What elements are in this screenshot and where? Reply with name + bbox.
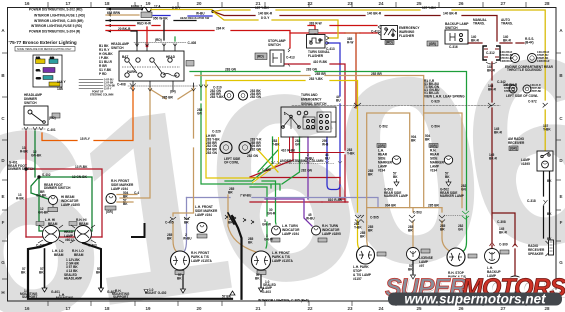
splice S-401 [24, 167, 27, 170]
radio receiver box [509, 146, 553, 171]
fuse F2 [142, 7, 151, 12]
wire tan to RH stop lamp [442, 208, 451, 252]
wire dashed C-920 [292, 105, 500, 107]
svg-text:57 BK: 57 BK [222, 295, 232, 299]
wire 410 R-BK [285, 64, 345, 202]
svg-text:28: 28 [544, 1, 550, 6]
lamp hi beam indicator [48, 196, 58, 212]
svg-text:Y-BK: Y-BK [272, 142, 280, 146]
svg-text:C-408: C-408 [117, 82, 126, 86]
svg-text:17: 17 [65, 1, 71, 6]
headlamp switch U1 [119, 45, 194, 81]
turn signal flasher U2 [307, 30, 326, 49]
svg-text:BK: BK [547, 179, 552, 183]
svg-text:410 R-BK: 410 R-BK [281, 149, 296, 153]
svg-text:410 R-BK: 410 R-BK [313, 60, 328, 64]
svg-text:8 G-Y: 8 G-Y [261, 16, 270, 20]
svg-text:VIEW L.H.R. LEAF SPRING: VIEW L.H.R. LEAF SPRING [424, 95, 465, 99]
lamp LH turn indicator [271, 226, 281, 242]
wire tan C-410 stubs [117, 195, 137, 203]
connector arrows C-503 [409, 215, 415, 223]
svg-text:SWITCH: SWITCH [111, 46, 124, 50]
svg-text:G: G [559, 260, 563, 265]
svg-text:LAMP: LAMP [263, 286, 273, 290]
wire 284 R horizontal [106, 31, 290, 49]
svg-text:C-504: C-504 [431, 125, 440, 129]
wire red fan y177 [250, 177, 340, 179]
lamp LH rear side marker [377, 144, 401, 165]
svg-text:G-403: G-403 [262, 290, 271, 294]
wire red diag from switch [250, 137, 293, 177]
wire green fan A [233, 137, 273, 181]
svg-text:GN-W: GN-W [262, 223, 271, 227]
svg-text:C-308: C-308 [497, 220, 506, 224]
svg-text:24: 24 [378, 1, 384, 6]
svg-text:F: F [2, 220, 5, 225]
svg-text:688 BRN: 688 BRN [107, 11, 121, 15]
node wire labels top [107, 5, 458, 103]
node rear marker boxes labels [347, 125, 465, 233]
svg-text:MARKER LAMP: MARKER LAMP [384, 194, 409, 198]
svg-text:SWITCH: SWITCH [268, 43, 281, 47]
svg-text:C-503: C-503 [413, 211, 422, 215]
svg-text:FUSE 2: FUSE 2 [131, 5, 142, 9]
wire yellow X diag [258, 150, 278, 172]
ground G-403 [259, 288, 264, 292]
svg-text:BR: BR [228, 191, 233, 195]
svg-text:FLASHER: FLASHER [308, 54, 324, 58]
wire black G-401 drop [44, 249, 46, 288]
svg-text:(RD): (RD) [49, 116, 56, 120]
svg-text:BR: BR [228, 221, 233, 225]
svg-text:22: 22 [307, 1, 313, 6]
svg-text:BR: BR [184, 220, 189, 224]
svg-text:C-4: C-4 [134, 191, 139, 195]
headlamp dimmer switch S2 [24, 106, 60, 125]
svg-text:BK: BK [21, 271, 26, 275]
svg-text:LAMP #1157A: LAMP #1157A [191, 259, 213, 263]
svg-text:(RD): (RD) [386, 41, 393, 45]
svg-text:BK-R: BK-R [471, 38, 480, 42]
svg-text:C-320: C-320 [262, 168, 271, 172]
wire tan box2 top [424, 113, 462, 208]
svg-text:P RD: P RD [99, 72, 107, 76]
wire black thick C-406 drop [232, 216, 242, 299]
svg-text:25: 25 [416, 306, 422, 311]
svg-text:28: 28 [544, 306, 550, 311]
svg-text:C-972: C-972 [528, 100, 537, 104]
svg-text:(GR): (GR) [429, 42, 436, 46]
wire black thick ground bus [28, 243, 232, 299]
svg-text:18: 18 [104, 306, 110, 311]
svg-text:#1157: #1157 [353, 277, 362, 281]
svg-text:BK: BK [547, 237, 552, 241]
svg-text:MOUNT G-402: MOUNT G-402 [145, 291, 167, 295]
svg-text:(RD): (RD) [155, 38, 162, 42]
wire 44 BU from flasher [326, 43, 340, 185]
connector rings C-210 [224, 91, 247, 100]
svg-text:HEAD REGULATOR SW: HEAD REGULATOR SW [180, 16, 210, 20]
svg-text:12 GN-BK: 12 GN-BK [72, 175, 88, 179]
svg-text:BEAM: BEAM [79, 222, 89, 226]
svg-text:21: 21 [255, 306, 261, 311]
svg-text:BEAM: BEAM [54, 253, 64, 257]
svg-text:GN-R: GN-R [267, 212, 276, 216]
svg-text:BK-R: BK-R [499, 230, 508, 234]
svg-text:INTERIOR LIGHTING,FUSE 1 (RD): INTERIOR LIGHTING,FUSE 1 (RD) [34, 14, 85, 18]
svg-text:284 R: 284 R [216, 27, 225, 31]
svg-text:LAMP #1895: LAMP #1895 [61, 203, 80, 207]
connector arrows tan V [131, 85, 208, 92]
svg-text:TRANS.: TRANS. [473, 21, 485, 25]
wire blue U pair [327, 137, 340, 190]
svg-text:STEERING COLUMN: STEERING COLUMN [90, 93, 114, 96]
svg-text:E: E [559, 194, 562, 199]
svg-text:F: F [560, 220, 563, 225]
svg-text:BK-R: BK-R [488, 87, 497, 91]
node power distribution text [29, 8, 85, 34]
wire 140 BK-R top bus [213, 12, 497, 42]
svg-text:MARKER LAMP: MARKER LAMP [440, 194, 465, 198]
svg-text:W-BU: W-BU [306, 217, 315, 221]
svg-text:BR: BR [167, 236, 172, 240]
wire green 283 GN bus [190, 72, 467, 211]
wire 20 BK-B corner [131, 31, 137, 46]
svg-text:BK-R: BK-R [494, 130, 503, 134]
svg-text:BR: BR [368, 228, 373, 232]
svg-text:RECEIVER: RECEIVER [508, 141, 525, 145]
node backup trans labels [429, 18, 554, 98]
lamp LH park stop TS [357, 246, 387, 264]
svg-text:BK: BK [39, 271, 44, 275]
wire 140 BK-R C-312 stubs [468, 42, 524, 44]
svg-text:C-402: C-402 [36, 244, 45, 248]
svg-text:BK: BK [445, 175, 450, 179]
svg-text:'75-77 Bronco Exterior Lightin: '75-77 Bronco Exterior Lighting [9, 40, 77, 45]
svg-text:15 R-Y: 15 R-Y [104, 87, 112, 90]
svg-text:BU: BU [336, 98, 341, 102]
wire green 282 GN left [201, 72, 280, 191]
connector arrows headlamp top [135, 44, 177, 47]
ground G-502 [446, 179, 451, 186]
node left box labels [8, 161, 130, 300]
svg-text:16: 16 [24, 306, 30, 311]
ground small marker lamp [144, 290, 148, 294]
svg-text:H: H [1, 290, 4, 295]
wire extra fan diagonals [252, 137, 345, 183]
svg-text:G: G [1, 260, 5, 265]
connector C-308 arrow [513, 244, 518, 248]
junction node top [211, 10, 214, 13]
svg-text:EMERGENCY: EMERGENCY [301, 98, 322, 102]
svg-text:C-312: C-312 [486, 51, 495, 55]
lamp RH turn indicator [312, 226, 328, 242]
wire GN-BK diag to indicator [31, 177, 53, 231]
connector arrows C-405 [170, 217, 190, 221]
wire 145 BK-R [492, 62, 515, 276]
wire green into RH stop lamp [462, 216, 467, 252]
svg-text:140 BK-R: 140 BK-R [443, 12, 458, 16]
radio speaker [546, 240, 554, 256]
wire red U bottom [340, 178, 344, 200]
svg-text:E: E [1, 194, 4, 199]
svg-text:14A Y: 14A Y [57, 80, 67, 84]
ground G-402 front [181, 289, 186, 293]
svg-text:285 BR: 285 BR [315, 72, 327, 76]
wire 284 R branch to 385 [290, 32, 377, 34]
lamp LH backup [485, 249, 510, 264]
svg-text:16: 16 [24, 1, 30, 6]
svg-text:LAMP #1895: LAMP #1895 [322, 232, 341, 236]
wire 285 BR bus [195, 76, 424, 208]
title note box [15, 47, 75, 52]
svg-text:BK: BK [123, 202, 128, 206]
svg-text:C-413: C-413 [286, 55, 295, 59]
svg-text:TURN AND: TURN AND [301, 93, 318, 97]
wire 383 R-W [308, 26, 377, 35]
node headlamp switch labels [90, 38, 196, 100]
lamp LH headlamp [38, 225, 64, 243]
node stoplamp flasher labels [257, 26, 420, 59]
label plates hi beam [36, 222, 44, 226]
wire headlamp switch top stubs [137, 44, 175, 51]
wire black headlamp box right [132, 224, 145, 237]
wire black radio drops [544, 171, 550, 238]
svg-text:RED R-W: RED R-W [137, 22, 151, 26]
wire lavender 7 W-BU [187, 198, 379, 208]
node front side marker labels [106, 179, 139, 214]
svg-text:20 BK-B: 20 BK-B [118, 27, 131, 31]
svg-text:(B+R): (B+R) [525, 40, 534, 44]
svg-text:285 BR: 285 BR [428, 204, 440, 208]
emergency warning flasher U3 [378, 25, 398, 45]
svg-text:GN: GN [197, 111, 202, 115]
connector arrows C-502 [439, 215, 445, 223]
svg-text:C-502: C-502 [379, 125, 388, 129]
svg-text:17 A: 17 A [154, 5, 161, 9]
svg-text:140 BK-R: 140 BK-R [503, 83, 518, 87]
svg-text:#194: #194 [430, 169, 437, 173]
svg-text:R-BK: R-BK [20, 150, 29, 154]
svg-text:904 BR: 904 BR [385, 204, 397, 208]
svg-text:GN-BK: GN-BK [31, 154, 42, 158]
wire 12 GN-BK dimmer [34, 131, 36, 177]
legend box [33, 55, 62, 87]
svg-text:GN-BK: GN-BK [38, 211, 49, 215]
svg-text:C-412: C-412 [371, 29, 380, 33]
svg-text:BEAM: BEAM [74, 253, 84, 257]
svg-text:BK: BK [393, 175, 398, 179]
svg-text:C-920: C-920 [431, 100, 440, 104]
svg-text:C-220: C-220 [212, 130, 221, 134]
svg-text:OF COWL: OF COWL [224, 160, 239, 164]
connector arrows C-406 [225, 215, 254, 224]
wire 950 W-BK [106, 20, 196, 22]
svg-text:282 GN: 282 GN [250, 148, 262, 152]
wire 13 R-BK box bottom [26, 236, 102, 238]
connector arrows C-413 yellow [326, 36, 329, 45]
arrowheads left feed lines [107, 8, 111, 33]
svg-text:SWITCH: SWITCH [24, 101, 37, 105]
svg-text:SOME ITEMS ARE FOR REPAIR LIGH: SOME ITEMS ARE FOR REPAIR LIGHTING ONLY [17, 48, 72, 51]
wire 137 Y-BK top bus [213, 10, 545, 151]
ground G-402 [99, 285, 104, 292]
svg-text:20: 20 [196, 1, 202, 6]
svg-text:19: 19 [145, 306, 151, 311]
svg-text:19: 19 [145, 1, 151, 6]
connector arrows C-920 crossings [354, 103, 548, 108]
svg-text:INTERIOR LIGHTING,FUSE 5 (RD): INTERIOR LIGHTING,FUSE 5 (RD) [31, 24, 82, 28]
logo [385, 274, 565, 307]
lamp RH backup [507, 276, 523, 292]
svg-text:27: 27 [500, 1, 506, 6]
lamp RH rear side marker [429, 144, 453, 165]
svg-text:R-BK: R-BK [16, 197, 25, 201]
svg-text:18: 18 [104, 1, 110, 6]
svg-text:GN: GN [295, 142, 300, 146]
svg-text:BK-R: BK-R [503, 38, 512, 42]
wire 13 R-BK dimmer [25, 131, 27, 237]
wire 385 R-W [345, 33, 360, 108]
svg-text:26: 26 [458, 306, 464, 311]
ground G-503 [394, 179, 399, 186]
svg-text:282 GN: 282 GN [301, 169, 313, 173]
svg-text:LAMP #194: LAMP #194 [282, 232, 299, 236]
svg-text:C-405: C-405 [165, 221, 174, 225]
svg-text:950 W-BK: 950 W-BK [153, 17, 169, 21]
svg-text:26: 26 [458, 1, 464, 6]
svg-text:BR: BR [440, 227, 445, 231]
svg-text:GN: GN [461, 187, 466, 191]
wire black license ground [412, 261, 414, 274]
lamp RH stop park TS [447, 248, 477, 266]
svg-text:SIGNAL SWITCH: SIGNAL SWITCH [301, 102, 327, 106]
svg-text:BR: BR [408, 228, 413, 232]
node center fanout labels [165, 139, 343, 236]
svg-text:SPL: SPL [36, 70, 41, 72]
wire 285 BR V splice [150, 87, 194, 99]
svg-text:TRANS.: TRANS. [501, 21, 513, 25]
svg-text:www.supermotors.net: www.supermotors.net [404, 292, 546, 307]
svg-text:HEADLAMP: HEADLAMP [64, 277, 83, 281]
svg-text:INTERIOR LIGHTING, C-305 (BR): INTERIOR LIGHTING, C-305 (BR) [34, 19, 83, 23]
svg-text:LAMP #1157A: LAMP #1157A [272, 259, 294, 263]
wire tan 904 BR bottom [367, 207, 442, 209]
svg-text:C-408: C-408 [188, 41, 197, 45]
connector rings engine compartment [511, 54, 537, 63]
svg-text:W-BU: W-BU [183, 236, 192, 240]
svg-text:C-413: C-413 [326, 47, 335, 51]
wire green fan B 3 GN-W [250, 137, 300, 248]
svg-text:C-403: C-403 [88, 244, 97, 248]
svg-text:(GR): (GR) [430, 144, 437, 148]
wire tan to LH park lamp [367, 222, 370, 250]
svg-text:GN-W: GN-W [264, 237, 273, 241]
svg-text:Y-BK: Y-BK [354, 225, 362, 229]
svg-text:140 BK-R: 140 BK-R [367, 12, 382, 16]
connector C-312 bracket [483, 46, 500, 64]
svg-text:GRD: GRD [36, 78, 41, 80]
svg-text:283 Y-BK: 283 Y-BK [309, 77, 323, 81]
node C-210 C-220 labels [197, 86, 262, 165]
wire 285 BR left vertical [120, 89, 150, 198]
wire tan license feed [412, 208, 414, 247]
svg-text:137 Y-BK: 137 Y-BK [255, 6, 269, 10]
svg-text:BR: BR [425, 137, 430, 141]
svg-text:14B: 14B [50, 56, 54, 59]
svg-text:383 R-W: 383 R-W [309, 22, 322, 26]
svg-text:140 BK-R: 140 BK-R [258, 12, 273, 16]
wire 6 G-Y [151, 9, 212, 11]
node dimmer labels [20, 80, 91, 158]
wire dotted C-401 [22, 128, 46, 130]
svg-text:BK: BK [547, 212, 552, 216]
wire RED R-W [106, 25, 160, 27]
wire green X diag [258, 150, 278, 172]
svg-text:282 GN: 282 GN [250, 95, 262, 99]
svg-text:810 R-BK: 810 R-BK [328, 198, 343, 202]
svg-text:POWER DISTRIBUTION, S-204 (R): POWER DISTRIBUTION, S-204 (R) [29, 30, 80, 34]
svg-text:7 W-BU: 7 W-BU [240, 193, 252, 197]
ground license [411, 275, 416, 279]
svg-text:(GR): (GR) [378, 144, 385, 148]
connector arrows dimmer C-401 [24, 127, 43, 130]
connector rings C-220 [220, 142, 251, 154]
svg-text:POWER DISTRIBUTION, S-202 (RD): POWER DISTRIBUTION, S-202 (RD) [29, 8, 82, 12]
svg-text:24: 24 [378, 306, 384, 311]
connector arrows green C-320 [462, 211, 469, 219]
svg-text:140B BK-R: 140B BK-R [500, 60, 513, 63]
svg-text:SUPPORT: SUPPORT [113, 295, 128, 299]
svg-text:(GR): (GR) [106, 210, 113, 214]
wire tan to RH park lamp [173, 222, 176, 251]
svg-text:BK: BK [248, 240, 253, 244]
svg-text:MOUNTING: MOUNTING [56, 296, 74, 300]
connector arrows C-505 [355, 215, 364, 223]
wire headlamp switch bottom stubs [133, 81, 194, 90]
svg-text:BK-R: BK-R [487, 68, 496, 72]
wire fuse feed 20 BK-B [107, 8, 142, 10]
wire black G-402 drop [83, 243, 101, 288]
wire yellow box left [206, 81, 258, 179]
node right column labels [424, 79, 552, 256]
wire dotted C-408 [128, 85, 198, 87]
svg-text:W-BU: W-BU [196, 12, 205, 16]
wire 283 Y-BK bus [206, 81, 361, 252]
ground bus arrow [230, 291, 235, 295]
svg-text:LAMP #194: LAMP #194 [195, 213, 212, 217]
svg-text:13 R-BK: 13 R-BK [75, 165, 88, 169]
wire lavender to RH park lamp [185, 198, 187, 252]
wire tan mid fan [228, 195, 256, 252]
turn and emergency signal switch U4 [281, 107, 336, 137]
svg-text:BR: BR [360, 234, 365, 238]
wire maroon into LH backup [491, 245, 493, 248]
connector rings C-342 [509, 85, 531, 93]
svg-text:C-309: C-309 [499, 243, 508, 247]
wire 13 R-BK box top [26, 169, 102, 237]
svg-text:C-505: C-505 [370, 216, 379, 220]
svg-text:(RD): (RD) [257, 54, 264, 58]
stoplamp switch S3 [255, 48, 290, 67]
svg-text:23: 23 [347, 306, 353, 311]
svg-text:17: 17 [65, 306, 71, 311]
svg-text:S-402: S-402 [42, 173, 51, 177]
wire black LH park lamp ground [260, 270, 262, 288]
svg-text:14A: 14A [36, 56, 40, 59]
wire W-BU stub [153, 15, 212, 18]
svg-text:PARK: PARK [127, 70, 136, 74]
